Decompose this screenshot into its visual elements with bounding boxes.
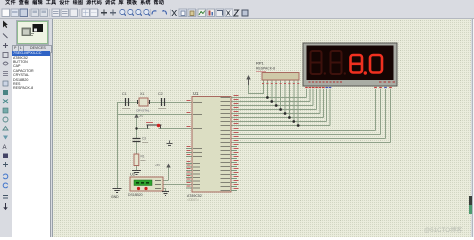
svg-text:C2: C2 [158,92,163,96]
svg-text:+5V: +5V [155,163,160,167]
svg-text:GND: GND [111,195,119,199]
svg-text:C1: C1 [122,92,127,96]
svg-text:U2: U2 [130,172,136,177]
svg-text:U1: U1 [193,91,199,96]
svg-text:R1: R1 [141,155,145,159]
svg-text:CRYSTAL: CRYSTAL [136,109,150,113]
svg-text:<TEXT>: <TEXT> [187,198,199,202]
svg-text:+5V: +5V [139,114,144,118]
svg-text:DS18B20: DS18B20 [128,193,143,197]
svg-text:RESPACK-8: RESPACK-8 [256,67,275,71]
svg-text:C3: C3 [142,137,146,141]
svg-text:X1: X1 [140,92,144,96]
svg-text:RP1: RP1 [256,61,265,66]
svg-text:A: A [3,145,7,151]
